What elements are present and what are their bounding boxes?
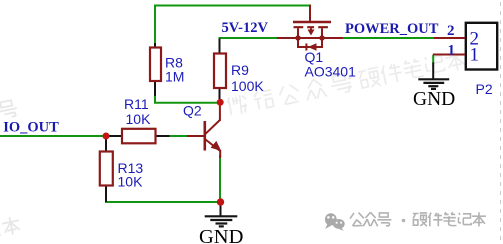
- svg-text:1: 1: [448, 42, 456, 58]
- svg-text:10K: 10K: [118, 174, 144, 190]
- svg-text:10K: 10K: [126, 111, 152, 127]
- svg-text:5V-12V: 5V-12V: [222, 20, 269, 36]
- svg-text:R11: R11: [124, 96, 149, 112]
- svg-text:R9: R9: [231, 62, 249, 78]
- svg-text:P2: P2: [476, 81, 493, 97]
- svg-text:IO_OUT: IO_OUT: [3, 120, 59, 136]
- svg-text:1M: 1M: [165, 68, 184, 84]
- svg-text:POWER_OUT: POWER_OUT: [345, 21, 439, 37]
- svg-text:GND: GND: [413, 89, 455, 110]
- svg-text:1: 1: [470, 45, 480, 66]
- svg-text:2: 2: [447, 23, 455, 39]
- svg-text:100K: 100K: [231, 78, 264, 94]
- svg-text:Q1: Q1: [305, 49, 324, 65]
- svg-text:AO3401: AO3401: [305, 64, 357, 80]
- svg-text:GND: GND: [199, 226, 243, 244]
- svg-text:Q2: Q2: [183, 103, 202, 119]
